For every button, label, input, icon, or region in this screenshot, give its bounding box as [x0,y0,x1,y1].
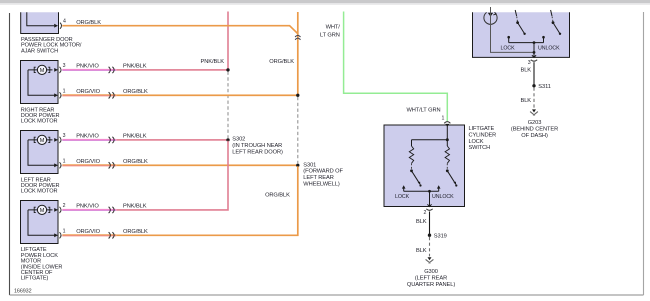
wire PNK/VIO right rear pin 3 [62,69,116,70]
svg-text:LEFT REAR DOOR): LEFT REAR DOOR) [232,149,283,155]
svg-text:ORG/BLK: ORG/BLK [123,229,148,235]
motor brush right [48,67,50,72]
motor brush right [48,137,50,142]
splice S301 [296,164,299,167]
svg-text:LIFTGATE: LIFTGATE [469,126,495,132]
internal junction node [446,138,449,141]
wire ORG/BLK liftgate up to S301 [116,166,297,235]
key cylinder lead [491,7,535,52]
left rear door power lock motor block [21,131,59,174]
svg-text:PNK/VIO: PNK/VIO [76,133,99,139]
left switch blade (LOCK) [515,10,516,16]
svg-text:G300: G300 [424,269,438,275]
key cylinder symbol [484,12,497,24]
wire ORG/BLK left rear to splice S301 [116,164,297,166]
inline connector [109,137,111,143]
svg-text:LIFTGATE): LIFTGATE) [21,276,49,282]
svg-text:2: 2 [423,210,426,216]
pin 1 terminal (top) [444,122,450,124]
svg-text:1: 1 [63,88,66,94]
inline connector on ORG/BLK vertical [295,35,300,37]
svg-text:LEFT REAR: LEFT REAR [303,175,333,181]
right switch blade (UNLOCK) [446,164,448,170]
wire BLK from S319 to ground [429,237,431,256]
svg-text:3: 3 [63,133,66,139]
liftgate cylinder lock switch block [384,125,465,207]
ground G300 [428,257,432,260]
motor brush left [34,67,36,72]
wire BLK from S311 to ground [533,88,535,109]
pin 3 terminal [54,138,58,142]
page border left [9,13,11,295]
center tap node [533,41,536,44]
svg-text:(LEFT REAR: (LEFT REAR [415,275,447,281]
svg-text:(FORWARD OF: (FORWARD OF [303,169,343,175]
svg-text:ORG/BLK: ORG/BLK [76,20,101,26]
wire PNK/VIO liftgate pin 2 [62,209,116,210]
resistor right branch [446,140,448,146]
motor brush left [34,207,36,212]
pin 2 terminal [54,208,58,212]
svg-text:M: M [40,138,45,144]
contact bus bar [404,190,439,192]
svg-text:4: 4 [63,19,66,25]
svg-text:ORG/BLK: ORG/BLK [265,192,290,198]
resistor left branch [411,140,413,146]
svg-text:1: 1 [442,115,445,121]
svg-text:AJAR SWITCH: AJAR SWITCH [21,48,58,54]
page border right [643,12,645,295]
svg-text:BLK: BLK [416,219,427,225]
motor armature lead [28,139,53,141]
motor brush right [48,207,50,212]
pin 1 terminal [54,233,58,237]
svg-text:LOCK: LOCK [501,46,516,52]
inline connector [109,207,111,213]
inline connector C??? [109,67,111,73]
contact bus bar [509,42,544,44]
svg-text:WHEELWELL): WHEELWELL) [303,182,340,188]
svg-text:UNLOCK: UNLOCK [432,194,454,200]
svg-text:2: 2 [63,203,66,209]
svg-text:PNK/BLK: PNK/BLK [123,203,147,209]
svg-text:PNK/BLK: PNK/BLK [123,133,147,139]
pin 1 terminal [54,163,58,167]
junction of PNK/BLK wires [226,68,229,71]
svg-text:OF DASH): OF DASH) [521,133,548,139]
center tap node [428,190,431,193]
svg-text:PNK/VIO: PNK/VIO [76,203,99,209]
right switch blade (UNLOCK) [551,10,552,16]
motor symbol M [37,205,46,214]
center tap to pin 2 [429,191,431,206]
right rear door power lock motor block [21,61,59,104]
motor armature lead [28,209,53,211]
liftgate power lock motor block [21,201,59,244]
svg-text:ORG/BLK: ORG/BLK [123,159,148,165]
svg-text:S302: S302 [232,137,245,143]
internal switch lead to pin 4 [27,12,54,25]
svg-text:G203: G203 [528,120,542,126]
pin 4 terminal [54,24,58,28]
wire PNK/BLK liftgate up to S302 [116,141,228,210]
inline connector [109,232,111,238]
power door lock switch block (cut off at top) [473,12,570,57]
splice S302 [226,138,229,141]
top window chrome strip [0,0,650,3]
pin 1 terminal [54,93,58,97]
wire ORG/BLK right rear to junction [116,94,297,96]
inline connector [109,162,111,168]
wire ORG/VIO right rear pin 1 [62,94,116,95]
UNLOCK contact [542,36,545,39]
svg-text:BLK: BLK [416,248,427,254]
motor symbol M [37,135,46,144]
svg-text:S311: S311 [538,84,551,90]
wire ORG/BLK vertical feed from top (off-page) [297,12,299,95]
pin 2 terminal (bottom) [427,204,429,206]
svg-text:LT GRN: LT GRN [320,33,340,39]
svg-text:M: M [40,208,45,214]
svg-text:PNK/BLK: PNK/BLK [201,59,225,65]
splice S311 [532,84,535,87]
svg-text:S319: S319 [434,233,447,239]
wire BLK from pin 2 to splice S319 [429,212,431,235]
svg-text:CYLINDER: CYLINDER [469,133,497,139]
wire PNK/BLK right rear to junction [116,69,227,71]
svg-text:M: M [40,68,45,74]
svg-text:1: 1 [63,228,66,234]
internal bus to left branch [412,139,448,141]
left switch blade (LOCK) [411,164,413,170]
svg-text:ORG/VIO: ORG/VIO [76,89,100,95]
svg-text:1: 1 [63,158,66,164]
splice feed (hidden wire) to S301 [297,97,299,163]
LOCK contact [507,36,510,39]
svg-text:S301: S301 [303,162,316,168]
svg-text:3: 3 [528,60,531,66]
LOCK contact [402,185,406,188]
motor symbol M [37,65,46,74]
svg-text:LOCK: LOCK [469,139,484,145]
motor wire to lower pin [28,70,55,95]
svg-text:(BEHIND CENTER: (BEHIND CENTER [511,127,558,133]
splice S319 [428,234,431,237]
wire PNK/VIO left rear pin 3 [62,139,116,140]
svg-text:(IN TROUGH NEAR: (IN TROUGH NEAR [232,143,282,149]
ground G203 [532,109,536,112]
passenger door power lock motor/ajar switch block (cut off at top) [21,12,59,33]
svg-text:LOCK: LOCK [395,194,410,200]
svg-text:SWITCH: SWITCH [469,145,491,151]
wire PNK/BLK vertical feed from top (off-page) [227,12,229,70]
wire WHT/LT GRN from top to liftgate cylinder lock switch pin 1 [344,12,448,122]
motor wire to lower pin [28,140,55,165]
node at key lead junction [533,51,536,54]
page border bottom [10,294,644,296]
svg-text:3: 3 [63,63,66,69]
motor armature lead [28,69,53,71]
svg-text:ORG/VIO: ORG/VIO [76,229,100,235]
svg-text:WHT/LT GRN: WHT/LT GRN [406,108,440,114]
inline connector [109,92,111,98]
center tap to pin 3 [533,43,535,58]
svg-text:LOCK MOTOR: LOCK MOTOR [21,119,58,125]
svg-text:BLK: BLK [520,67,531,73]
pin 3 terminal [54,68,58,72]
svg-text:ORG/BLK: ORG/BLK [269,59,294,65]
wire BLK from pin 3 to splice S311 [533,62,535,85]
motor wire to lower pin [28,210,55,235]
wire ORG/BLK from passenger door lock motor pin 4 [62,26,297,34]
svg-text:UNLOCK: UNLOCK [538,46,560,52]
svg-text:PNK/VIO: PNK/VIO [76,63,99,69]
UNLOCK contact [437,185,441,188]
wire ORG/VIO liftgate pin 1 [62,234,116,235]
svg-text:ORG/BLK: ORG/BLK [123,89,148,95]
svg-text:ORG/VIO: ORG/VIO [76,159,100,165]
wire ORG/VIO left rear pin 1 [62,164,116,165]
svg-text:WHT/: WHT/ [326,25,341,31]
pin 3 terminal (bottom) [532,55,534,57]
svg-text:QUARTER PANEL): QUARTER PANEL) [407,282,455,288]
svg-text:PNK/BLK: PNK/BLK [123,63,147,69]
svg-text:BLK: BLK [520,98,531,104]
svg-text:166932: 166932 [14,288,32,294]
junction of ORG/BLK wires [296,94,299,97]
splice feed (hidden wire) to S302 [227,72,229,139]
motor brush left [34,137,36,142]
wire PNK/BLK left rear to splice S302 [116,139,227,141]
svg-text:LOCK MOTOR: LOCK MOTOR [21,189,58,195]
internal lead from pin 1 [446,125,448,140]
